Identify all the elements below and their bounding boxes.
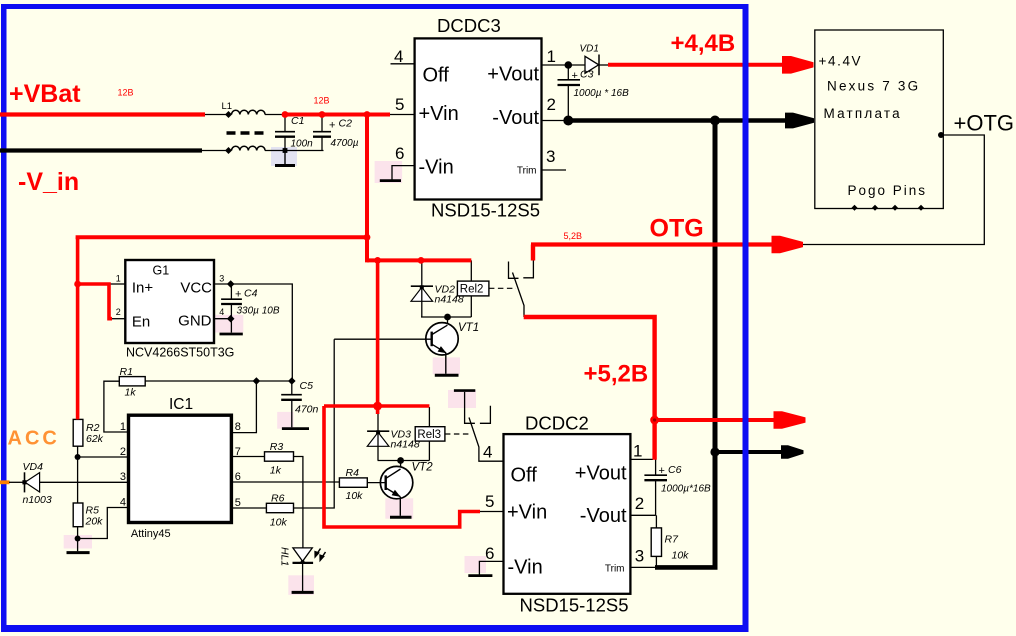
transistor VT1 collector stub — [447, 317, 449, 326]
node dot +OTG at block edge — [938, 132, 944, 138]
svg-text:C1: C1 — [291, 115, 304, 127]
wire +OTG return path — [800, 135, 984, 245]
op-amp block DCDC3 U-NSD15-12S5 — [415, 38, 542, 199]
wire R5 bottom — [77, 527, 79, 552]
wire G1 pin2 stub — [110, 318, 125, 320]
wire VT1 emitter to ground — [445, 353, 447, 374]
highlight box C5 ground (pink) — [277, 412, 293, 429]
svg-text:-Vout: -Vout — [492, 107, 539, 129]
wire R1 left to IC1 pin1 — [104, 381, 129, 432]
inductor L1 core dashed — [227, 131, 265, 134]
diode VD4 — [24, 472, 26, 492]
ground bar DCDC3 pin6 — [380, 179, 401, 182]
wire pin 1 DCDC2 — [630, 458, 653, 460]
wire red horizontal y260 to Rel2 — [367, 258, 471, 262]
ground HL1 — [292, 591, 314, 594]
dashed link Rel2 to switch — [489, 287, 516, 289]
svg-text:In+: In+ — [132, 280, 154, 297]
node diamond L1 bottom — [225, 147, 232, 154]
ground C5 — [282, 427, 309, 430]
svg-text:+5,2В: +5,2В — [584, 361, 649, 388]
svg-text:VCC: VCC — [180, 280, 212, 297]
svg-text:Rel3: Rel3 — [417, 429, 441, 441]
svg-text:C5: C5 — [300, 380, 314, 392]
relay coil Rel2 — [457, 281, 489, 296]
svg-text:1: 1 — [120, 421, 126, 433]
wire +5.2V branch to arrow — [655, 418, 775, 422]
svg-text:+: + — [572, 70, 578, 82]
junction dot R2/pin2 — [75, 454, 81, 460]
svg-text:NSD15-12S5: NSD15-12S5 — [431, 200, 540, 221]
black arrowhead lower right — [781, 445, 804, 459]
wire black vertical main (x715) — [713, 121, 718, 568]
capacitor C4 — [230, 285, 232, 299]
wire R6 to VT1 base vertical — [294, 339, 335, 508]
svg-text:330µ 10В: 330µ 10В — [237, 306, 280, 317]
svg-text:6: 6 — [235, 471, 241, 483]
junction dot red 12V/C1 — [282, 111, 289, 118]
wire Rel2 right branch — [470, 260, 472, 317]
wire VT2 emitter to ground — [399, 497, 401, 516]
svg-text:100n: 100n — [291, 139, 314, 150]
svg-text:+: + — [235, 289, 241, 301]
wire thin L1 to C2 bottom rail — [265, 150, 324, 152]
capacitor C6 — [655, 459, 657, 474]
svg-text:10k: 10k — [270, 517, 288, 529]
svg-text:3: 3 — [546, 147, 555, 166]
svg-text:GND: GND — [178, 313, 212, 330]
highlight box R5 ground (pink) — [64, 535, 92, 549]
switch Rel2 right contact from OTG — [523, 259, 533, 278]
IC G1 NCV4266 block — [125, 260, 214, 343]
switch Rel2 blade — [513, 273, 525, 318]
switch Rel3 blade to DCDC2 pin4 — [469, 418, 504, 462]
relay coil Rel3 — [415, 427, 445, 441]
wire red vertical left x77 — [76, 237, 80, 419]
wire pin8 vertical — [231, 381, 256, 433]
svg-text:+4,4В: +4,4В — [671, 30, 736, 57]
svg-text:VT1: VT1 — [458, 322, 479, 334]
svg-text:R1: R1 — [120, 366, 133, 378]
svg-text:1: 1 — [633, 442, 642, 461]
svg-text:Off: Off — [423, 65, 450, 87]
highlight box VT1 ground (pink) — [433, 357, 460, 374]
wire thin +VBat to L1 — [205, 114, 229, 116]
svg-text:R3: R3 — [270, 441, 284, 453]
wire 12V rail after L1 (red) — [284, 113, 390, 117]
svg-text:1k: 1k — [125, 387, 137, 399]
svg-text:+VBat: +VBat — [9, 80, 81, 108]
svg-text:12В: 12В — [314, 96, 330, 106]
svg-text:VD1: VD1 — [580, 44, 599, 55]
resistor R7 — [651, 528, 661, 557]
svg-text:OTG: OTG — [650, 215, 704, 243]
node diamond pin8 net — [253, 377, 261, 385]
ground VT2 — [390, 516, 412, 519]
wire red long vertical x377 — [376, 260, 380, 414]
svg-text:-Vout: -Vout — [580, 505, 627, 527]
svg-text:62k: 62k — [86, 433, 104, 445]
svg-text:Pogo Pins: Pogo Pins — [848, 183, 928, 198]
svg-text:C4: C4 — [244, 288, 258, 300]
switch Rel2 left contact — [509, 262, 519, 279]
wire R7 bottom stub — [655, 556, 657, 567]
svg-text:ACC: ACC — [8, 428, 60, 450]
wire thin L1 to C1 node top — [265, 114, 286, 116]
wire pin 2 DCDC2 — [630, 514, 655, 516]
wire G1 pin3 VCC to C4 and C5 feed — [214, 284, 292, 381]
svg-text:4: 4 — [120, 497, 126, 509]
wire R3 to HL1 vertical — [294, 457, 303, 548]
transistor VT2 collector stub — [400, 461, 402, 470]
resistor R1 — [119, 377, 145, 386]
svg-text:5: 5 — [485, 492, 494, 511]
wire G1 pin4 GND — [214, 318, 232, 320]
wire pin 3 DCDC2 — [630, 566, 656, 568]
wire Rel3 top stub — [428, 407, 430, 427]
svg-text:4: 4 — [483, 443, 492, 462]
svg-text:Nexus 7 3G: Nexus 7 3G — [827, 79, 920, 94]
highlight box DCDC3 pin6 ground (pink) — [375, 161, 403, 183]
svg-text:2: 2 — [635, 494, 644, 513]
svg-text:VD4: VD4 — [23, 461, 44, 473]
wire -V_in input — [0, 148, 202, 152]
highlight box Rel3 switch top (pink) — [448, 390, 476, 408]
node dot C5 — [288, 377, 296, 385]
wire pin 2 DCDC3 — [542, 120, 567, 122]
capacitor C1 — [284, 117, 286, 132]
junction dot red y237 corner — [364, 234, 371, 241]
wire red box to DCDC2 +Vin — [324, 406, 480, 527]
wire +5.2V switch to DCDC2 pin1 — [524, 317, 655, 460]
svg-text:HL1: HL1 — [279, 547, 291, 566]
IC IC1 Attiny45 block — [129, 415, 232, 522]
svg-text:1k: 1k — [270, 465, 282, 477]
junction dot VT1 collector node — [444, 314, 451, 321]
wire black thick bottom to DCDC2 Trim — [655, 565, 718, 570]
wire +VBat input (red) — [0, 112, 205, 116]
wire pin 6 DCDC2 + ground step — [479, 561, 503, 575]
svg-text:+OTG: +OTG — [954, 111, 1015, 136]
wire +4.4V from VD1 — [608, 63, 783, 67]
node dot G1 pin4 — [227, 315, 235, 323]
svg-text:1000µ * 16В: 1000µ * 16В — [574, 88, 630, 99]
wire red vertical x367 — [365, 115, 369, 263]
junction dot red +5.2V branch — [650, 416, 659, 425]
diode VD1 — [585, 56, 599, 73]
junction dot x715 branch — [710, 447, 719, 456]
wire IC1 pin5 to R6 — [231, 507, 266, 509]
svg-text:En: En — [132, 314, 150, 331]
node dot G1 pin3 — [227, 280, 235, 288]
red arrowhead +4.4V — [782, 56, 814, 74]
svg-text:C6: C6 — [668, 464, 682, 476]
svg-text:+4.4V: +4.4V — [819, 54, 863, 69]
block DCDC2 NSD15-12S5 — [504, 434, 631, 594]
wire red G1 In+/En feed — [78, 284, 112, 319]
wire pin 5 DCDC3 — [389, 114, 415, 116]
highlight box DCDC2 pin6 ground (pink) — [465, 556, 487, 573]
transistor VT1 — [426, 323, 458, 355]
pogo pin diamonds — [852, 205, 858, 211]
LED arrows — [315, 549, 325, 561]
junction dot red G1 In+ — [74, 281, 81, 288]
inductor L1 top winding — [232, 110, 266, 114]
border frame blue — [1, 4, 749, 632]
LED HL1 — [293, 548, 312, 561]
black arrowhead to Nexus matplata — [785, 113, 814, 129]
junction dot DCDC3 -Vout — [563, 116, 573, 126]
wire IC1 pin2 — [78, 456, 129, 458]
svg-text:Attiny45: Attiny45 — [131, 528, 171, 540]
wire IC1 pin6 to R4 — [231, 481, 339, 483]
svg-text:1: 1 — [116, 274, 121, 284]
svg-text:6: 6 — [395, 144, 404, 163]
svg-text:Rel2: Rel2 — [460, 284, 484, 296]
junction dot red x377/y260 — [374, 257, 381, 264]
wire pin 4 DCDC3 — [391, 63, 415, 65]
svg-text:2: 2 — [116, 307, 121, 317]
svg-text:+Vout: +Vout — [575, 463, 627, 485]
highlight box C1 ground (lavender) — [271, 147, 297, 166]
svg-text:-Vin: -Vin — [508, 557, 543, 579]
svg-text:2: 2 — [120, 446, 126, 458]
wire thin -V_in to L1 — [202, 150, 229, 152]
svg-text:R7: R7 — [665, 534, 680, 546]
wire VD4 to IC1 pin3 — [40, 481, 129, 483]
svg-text:12В: 12В — [118, 88, 134, 98]
svg-text:-V_in: -V_in — [18, 168, 79, 196]
ground VT1 — [435, 374, 459, 377]
highlight box VT2 ground (pink) — [385, 498, 413, 518]
capacitor C5 — [291, 381, 293, 394]
wire pin 6 DCDC3 + ground step — [392, 166, 415, 181]
wire IC1 pin7 — [231, 456, 264, 458]
wire black branch to lower right arrow — [715, 450, 783, 454]
resistor R6 — [266, 503, 293, 512]
wire VD3/Rel3 bottom — [378, 460, 430, 462]
svg-text:n1003: n1003 — [23, 494, 52, 506]
wire VD2 top stub — [421, 260, 423, 286]
svg-text:3: 3 — [635, 547, 644, 566]
svg-text:VT2: VT2 — [412, 462, 434, 474]
ground bar DCDC2 pin6 — [468, 574, 492, 577]
svg-text:1: 1 — [547, 47, 556, 66]
ground R5 — [67, 551, 90, 554]
wire pin 5 DCDC2 stub — [480, 511, 504, 513]
junction dot x715 top — [710, 116, 720, 126]
svg-text:3: 3 — [120, 471, 126, 483]
svg-text:8: 8 — [235, 421, 241, 433]
svg-text:-Vin: -Vin — [419, 157, 454, 179]
wire red horizontal y237 to G1 — [76, 235, 369, 239]
svg-text:+Vout: +Vout — [487, 64, 539, 86]
switch Rel3 upper contact bar — [454, 389, 475, 392]
junction dot R5/pin4 — [75, 536, 81, 542]
wire DCDC3 -Vout to Nexus (horizontal) — [568, 118, 786, 123]
ground C1 — [284, 151, 286, 165]
svg-text:NCV4266ST50T3G: NCV4266ST50T3G — [126, 346, 234, 360]
junction dot VT2 collector node — [397, 457, 404, 464]
wire red horizontal y406 — [324, 404, 429, 408]
svg-text:+: + — [329, 120, 335, 132]
svg-text:4: 4 — [219, 307, 224, 317]
wire R7 top stub — [655, 515, 657, 528]
wire HL1 to ground — [302, 563, 304, 591]
junction dot pin1/C3 — [565, 61, 573, 69]
svg-text:5,2В: 5,2В — [564, 231, 583, 241]
svg-text:DCDC2: DCDC2 — [525, 413, 589, 434]
svg-text:R4: R4 — [346, 467, 360, 479]
wire ACC stub (orange) — [0, 480, 10, 484]
wire R2 bottom to R5 — [77, 446, 79, 503]
svg-text:C2: C2 — [339, 118, 353, 130]
capacitor C2 — [321, 117, 323, 132]
resistor R5 — [73, 503, 83, 527]
svg-text:2: 2 — [547, 95, 556, 114]
switch Rel3 right contact — [480, 406, 491, 424]
resistor R4 — [339, 478, 367, 487]
wire VD2/Rel2 bottom — [421, 316, 471, 318]
svg-text:1000µ*16В: 1000µ*16В — [661, 484, 711, 495]
wire pin 3 DCDC3 (open stub) — [542, 169, 567, 171]
zener diode VD2 — [411, 287, 433, 301]
svg-text:R6: R6 — [271, 493, 285, 505]
svg-text:C3: C3 — [580, 69, 594, 81]
svg-text:5: 5 — [235, 497, 241, 509]
svg-text:L1: L1 — [222, 101, 233, 112]
svg-text:IC1: IC1 — [169, 396, 193, 413]
svg-text:+: + — [659, 465, 665, 477]
red arrowhead +5.2V — [774, 411, 806, 429]
junction dot red x377/y406 — [373, 402, 382, 411]
svg-text:3: 3 — [219, 274, 224, 284]
wire R4 to VT2 base — [367, 482, 385, 484]
svg-text:+Vin: +Vin — [419, 103, 459, 125]
junction dot red 12V/x367 — [364, 111, 371, 118]
junction dot C1 bottom — [283, 148, 288, 153]
wire VT1 base — [334, 338, 432, 340]
node diamond L1 top — [225, 111, 232, 118]
svg-text:4700µ: 4700µ — [331, 138, 359, 149]
highlight box C4 ground (pink) — [215, 315, 243, 333]
svg-text:Trim: Trim — [605, 564, 625, 575]
junction dot red 12V/C2 — [319, 111, 326, 118]
inductor L1 bottom winding — [232, 146, 266, 150]
svg-text:NSD15-12S5: NSD15-12S5 — [520, 595, 629, 616]
svg-text:G1: G1 — [153, 264, 170, 278]
svg-text:6: 6 — [485, 544, 494, 563]
wire OTG red vertical stub — [531, 245, 535, 261]
svg-text:Trim: Trim — [517, 166, 537, 177]
wire G1 pin1 stub — [110, 283, 125, 285]
wire IC1 pin4 L — [78, 508, 129, 539]
wire VD3 top stub — [377, 410, 379, 431]
transistor VT2 — [380, 466, 412, 498]
svg-text:10k: 10k — [672, 550, 690, 562]
svg-text:5: 5 — [395, 95, 404, 114]
ground C4 — [220, 333, 243, 336]
resistor R3 — [265, 452, 294, 461]
svg-text:Матплата: Матплата — [824, 106, 902, 121]
wire OTG red horizontal — [531, 242, 773, 246]
junction dot red x421/y260 — [418, 257, 425, 264]
svg-text:10k: 10k — [346, 490, 364, 502]
svg-text:Off: Off — [511, 465, 538, 487]
block Nexus 7 3G motherboard — [815, 30, 944, 209]
red arrowhead OTG — [772, 236, 804, 254]
svg-text:+Vin: +Vin — [507, 502, 547, 524]
dashed link Rel3 to switch — [445, 433, 471, 435]
resistor R2 — [73, 419, 83, 446]
zener diode VD3 — [367, 432, 389, 446]
wire ACC to VD4 — [9, 481, 25, 483]
highlight box HL1 ground (pink) — [288, 575, 314, 595]
wire Rel3 bottom stub — [428, 441, 430, 460]
wire R1 right to C5 — [145, 380, 292, 382]
svg-text:470n: 470n — [295, 404, 319, 416]
capacitor C3 — [567, 65, 569, 79]
border right overlay (blue over wires) — [743, 4, 749, 632]
wire pin 1 DCDC3 — [542, 64, 586, 66]
svg-text:DCDC3: DCDC3 — [437, 15, 501, 36]
svg-text:20k: 20k — [85, 516, 104, 528]
